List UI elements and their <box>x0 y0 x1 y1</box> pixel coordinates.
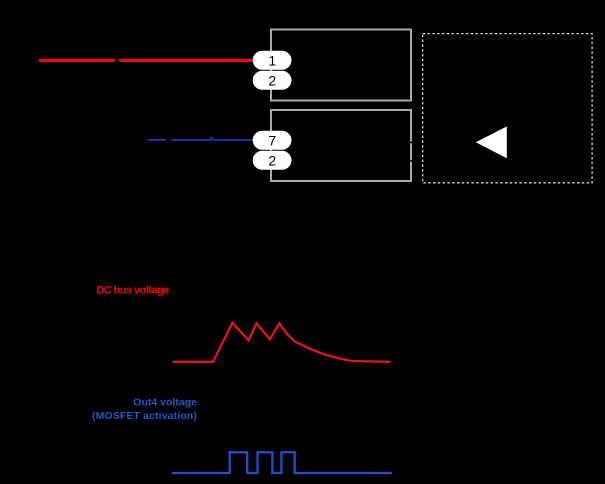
wire: blue Out4 wire segment 1 <box>148 139 166 141</box>
pin label 7 (oval) <box>253 131 292 150</box>
waveform: Out4 voltage pulses (blue trace) <box>172 452 392 473</box>
svg-text:Out4 voltage: Out4 voltage <box>133 397 197 409</box>
wire: blue Out4 wire segment 2 (with glitch bump) <box>171 138 253 140</box>
pin break on box U2 right edge at y=160 <box>410 160 413 162</box>
symbol: white left-pointing triangle <box>476 126 507 158</box>
block: box U1 (top gray block) <box>271 30 411 101</box>
pin label 1 (oval) <box>253 51 292 70</box>
svg-text:1: 1 <box>268 52 276 68</box>
pin break on box U2 right edge at y=142 <box>410 141 413 143</box>
svg-text:7: 7 <box>268 132 276 148</box>
block: dashed box (scope area) <box>423 34 592 183</box>
pin label 2 (oval, bottom block) <box>253 151 292 170</box>
svg-text:2: 2 <box>268 152 276 168</box>
svg-text:2: 2 <box>268 72 276 88</box>
svg-text:DC bus voltage: DC bus voltage <box>96 284 169 296</box>
wire: red DC bus wire segment 2 <box>119 59 253 62</box>
block: box U2 (bottom gray block) <box>271 110 411 181</box>
wire: red DC bus wire segment 1 <box>39 59 115 62</box>
waveform: DC bus voltage (red trace) <box>173 323 391 362</box>
svg-text:(MOSFET activation): (MOSFET activation) <box>92 410 197 422</box>
pin label 2 (oval, top block) <box>253 71 292 90</box>
